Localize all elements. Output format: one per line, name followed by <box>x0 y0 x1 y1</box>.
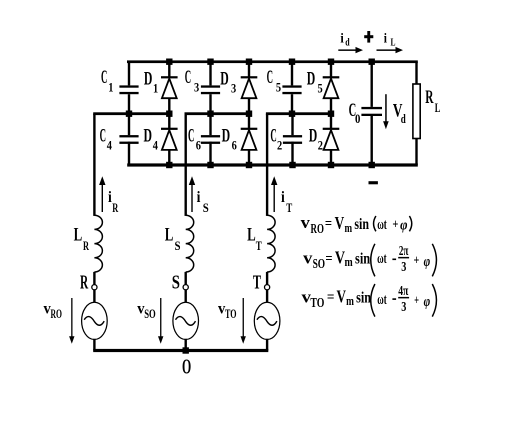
svg-text:d: d <box>401 111 407 126</box>
svg-text:T: T <box>253 272 262 294</box>
wire: phase R mid rail <box>93 112 170 115</box>
svg-text:4π: 4π <box>398 283 409 298</box>
junction: top rail / D5 <box>328 59 334 65</box>
svg-text:v: v <box>303 248 313 267</box>
arrow/label iR phase current <box>99 176 119 215</box>
svg-text:3: 3 <box>231 80 237 95</box>
wire: top DC rail <box>127 60 418 63</box>
svg-text:6: 6 <box>232 138 238 153</box>
capacitor C5 <box>267 62 302 114</box>
svg-text:3: 3 <box>401 299 406 314</box>
svg-text:m: m <box>346 293 354 308</box>
svg-text:SO: SO <box>144 306 156 321</box>
svg-text:sin: sin <box>355 250 370 267</box>
svg-text:4: 4 <box>153 138 159 153</box>
junction: mid rail / C3-C6 <box>207 111 213 117</box>
svg-text:m: m <box>345 254 353 269</box>
svg-text:m: m <box>345 220 353 235</box>
svg-text:T: T <box>286 200 292 215</box>
capacitor C4 <box>100 114 139 165</box>
arrow/label vRO source voltage <box>44 298 75 344</box>
label + polarity <box>364 31 373 43</box>
svg-text:ωt: ωt <box>377 292 386 308</box>
junction: neutral wire / source S <box>183 347 189 353</box>
svg-text:L: L <box>391 37 396 49</box>
svg-text:D: D <box>144 68 153 89</box>
svg-text:sin: sin <box>354 216 369 233</box>
svg-text:R: R <box>80 272 89 294</box>
inductor LT <box>247 215 275 272</box>
svg-text:V: V <box>337 287 347 307</box>
label - polarity <box>369 181 378 184</box>
wire: neutral bottom wire <box>93 349 268 352</box>
svg-text:D: D <box>307 68 316 89</box>
svg-text:C: C <box>188 126 194 147</box>
svg-text:S: S <box>175 238 181 253</box>
svg-text:0: 0 <box>355 111 360 126</box>
svg-text:=: = <box>327 290 335 306</box>
svg-text:sin: sin <box>356 290 371 307</box>
svg-text:6: 6 <box>196 138 202 153</box>
svg-text:D: D <box>309 126 318 147</box>
svg-text:R: R <box>83 238 89 253</box>
resistor RL <box>413 62 441 165</box>
svg-text:D: D <box>144 126 153 147</box>
svg-text:2: 2 <box>318 138 323 153</box>
wire: LT to node T <box>266 272 268 303</box>
junction: top rail / D1 <box>166 59 172 65</box>
junction: mid rail / C1-C4 <box>126 111 132 117</box>
arrow/label iL load current <box>377 31 404 53</box>
wire: phase S mid rail <box>185 112 251 115</box>
svg-text:TO: TO <box>310 295 324 310</box>
svg-text:5: 5 <box>318 80 324 95</box>
svg-text:=: = <box>325 216 332 232</box>
svg-text:TO: TO <box>225 306 237 321</box>
svg-text:C: C <box>185 67 191 88</box>
node T terminal <box>253 272 270 294</box>
junction: bottom rail / C2 <box>289 162 295 168</box>
junction: top rail / D3 <box>246 59 252 65</box>
svg-text:R: R <box>425 87 433 108</box>
wire: phase T mid rail <box>266 112 332 115</box>
svg-text:C: C <box>100 126 106 147</box>
wire: phase S vertical <box>185 114 187 216</box>
arrow/label id rectified current <box>338 31 363 53</box>
svg-text:L: L <box>435 100 441 115</box>
svg-text:C: C <box>101 67 107 88</box>
svg-text:SO: SO <box>313 256 326 271</box>
svg-text:T: T <box>256 238 262 253</box>
svg-text:L: L <box>247 224 256 245</box>
node S terminal <box>172 272 188 294</box>
inductor LR <box>74 215 103 272</box>
svg-text:4: 4 <box>107 138 113 153</box>
junction: mid rail / D3-D6 <box>246 111 252 117</box>
svg-text:R: R <box>112 200 118 215</box>
svg-text:+: + <box>414 293 419 308</box>
svg-text:φ: φ <box>424 294 431 310</box>
svg-text:RO: RO <box>51 306 63 321</box>
label equation vTO = Vm sin(wt - 4pi/3 + phi) <box>302 283 437 316</box>
wire: LR to node R <box>93 272 95 303</box>
wire: source vRO to neutral <box>93 339 95 351</box>
svg-text:φ: φ <box>400 218 408 234</box>
svg-text:2π: 2π <box>399 243 409 258</box>
svg-text:D: D <box>222 126 231 147</box>
svg-text:D: D <box>220 68 229 89</box>
junction: mid rail / C5-C2 <box>289 111 295 117</box>
junction: top rail / C5 <box>289 59 295 65</box>
diode D3 <box>220 62 257 114</box>
svg-text:1: 1 <box>153 80 158 95</box>
diode D1 <box>144 62 178 114</box>
capacitor C1 <box>101 62 139 114</box>
wire: phase T vertical <box>266 114 268 216</box>
wire: LS to node S <box>185 272 187 303</box>
label equation vSO = Vm sin(wt - 2pi/3 + phi) <box>303 243 436 276</box>
svg-text:O: O <box>182 355 191 379</box>
svg-text:C: C <box>270 126 276 147</box>
junction: bottom rail / D6 <box>246 162 252 168</box>
svg-text:i: i <box>384 31 387 46</box>
label equation vRO = Vm sin(wt + phi) <box>301 213 412 236</box>
junction: bottom rail / C6 <box>207 162 213 168</box>
diode D2 <box>309 114 340 165</box>
junction: bottom rail / D2 <box>328 162 334 168</box>
capacitor C6 <box>188 114 220 165</box>
svg-text:+: + <box>414 254 420 269</box>
svg-text:2: 2 <box>277 138 282 153</box>
arrow/label iT phase current <box>271 176 293 215</box>
source vRO <box>82 302 108 339</box>
source vTO <box>254 302 280 339</box>
svg-text:+: + <box>392 217 398 232</box>
junction: mid rail / D5-D2 <box>328 111 334 117</box>
wire: bottom DC rail <box>127 163 418 166</box>
svg-text:ωt: ωt <box>377 251 387 267</box>
wire: source vTO to neutral <box>266 339 268 351</box>
diode D6 <box>222 114 258 165</box>
wire: phase R vertical <box>93 114 95 216</box>
junction: mid rail / D1-D4 <box>166 111 172 117</box>
svg-text:3: 3 <box>194 80 200 95</box>
capacitor C2 <box>270 114 302 165</box>
svg-text:=: = <box>325 251 332 267</box>
svg-text:L: L <box>74 224 83 245</box>
capacitor C3 <box>185 62 220 114</box>
svg-text:φ: φ <box>424 254 431 270</box>
junction: top rail / C0 <box>369 59 375 65</box>
arrow/label vTO source voltage <box>218 298 246 344</box>
svg-text:i: i <box>340 31 343 46</box>
junction: bottom rail / D4 <box>166 162 172 168</box>
svg-text:v: v <box>301 213 311 232</box>
svg-text:C: C <box>267 67 273 88</box>
diode D4 <box>144 114 178 165</box>
svg-text:S: S <box>203 200 209 215</box>
svg-text:ωt: ωt <box>377 217 387 233</box>
source vSO <box>173 302 199 339</box>
arrow/label vSO source voltage <box>137 298 163 344</box>
svg-text:5: 5 <box>276 80 282 95</box>
wire: source vSO to neutral <box>185 339 187 351</box>
svg-text:i: i <box>281 189 285 206</box>
svg-text:V: V <box>335 213 345 233</box>
svg-text:i: i <box>197 189 201 206</box>
svg-text:1: 1 <box>108 80 113 95</box>
diode D5 <box>307 62 340 114</box>
arrow/label Vd output voltage <box>383 94 406 129</box>
svg-text:S: S <box>172 272 180 294</box>
junction: top rail / C3 <box>207 59 213 65</box>
svg-text:3: 3 <box>401 259 406 274</box>
svg-text:L: L <box>165 224 174 245</box>
svg-text:RO: RO <box>311 221 324 236</box>
node R terminal <box>80 272 97 294</box>
inductor LS <box>165 215 194 272</box>
arrow/label iS phase current <box>189 176 209 215</box>
junction: bottom rail / C0 <box>369 162 375 168</box>
capacitor C0 <box>349 62 382 165</box>
svg-text:d: d <box>345 37 349 49</box>
